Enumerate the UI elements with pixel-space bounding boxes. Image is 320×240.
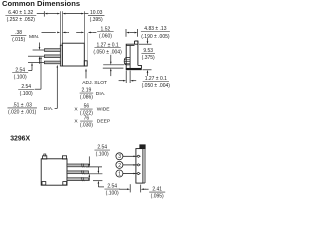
lead 1 (top, right side): [67, 164, 89, 167]
pin 2 lead: [123, 164, 134, 166]
svg-text:(.100): (.100): [106, 191, 119, 197]
svg-text:(.252 ± .052): (.252 ± .052): [7, 17, 36, 23]
svg-text:DEEP: DEEP: [97, 118, 110, 124]
corner lug top-right: [62, 156, 66, 159]
svg-text:(.015): (.015): [12, 37, 25, 43]
corner lug top-left: [43, 156, 47, 159]
svg-text:DIA.: DIA.: [44, 106, 54, 112]
pin 3 circle: [116, 153, 123, 160]
lead 1 (top): [44, 49, 60, 52]
adjustment screw (side): [124, 58, 130, 65]
lead 2 (middle): [44, 55, 60, 58]
lead 2 (middle): [67, 171, 89, 174]
corner lug bottom-right: [63, 182, 67, 185]
svg-text:3: 3: [118, 154, 121, 160]
svg-text:DIA.: DIA.: [96, 91, 106, 97]
svg-text:(.050 ± .004): (.050 ± .004): [142, 83, 171, 89]
adjustment screw end at body lower-right: [84, 61, 87, 66]
trimmer front view (bottom-left): [41, 159, 67, 185]
svg-text:ADJ. SLOT: ADJ. SLOT: [82, 80, 107, 86]
svg-text:(.020 ± .001): (.020 ± .001): [8, 110, 37, 116]
svg-text:(.095): (.095): [151, 194, 164, 200]
pin 2 circle: [116, 161, 123, 168]
svg-text:(.030): (.030): [80, 123, 93, 129]
svg-text:(.086): (.086): [80, 95, 93, 101]
svg-text:(.060): (.060): [99, 33, 112, 39]
pin 1 circle: [116, 170, 123, 177]
svg-text:WIDE: WIDE: [97, 106, 111, 112]
pin 1 lead: [123, 173, 134, 175]
trimmer body side view (top-left): [62, 43, 84, 66]
lead break marks: [81, 163, 82, 167]
svg-text:(.190 ± .005): (.190 ± .005): [141, 34, 170, 40]
lead 3 (bottom): [44, 61, 60, 64]
svg-text:1: 1: [118, 171, 121, 177]
pin 3 lead: [123, 155, 134, 157]
corner lug bottom-left: [42, 182, 46, 185]
svg-text:(.050 ± .004): (.050 ± .004): [93, 49, 122, 55]
svg-text:(.395): (.395): [90, 17, 103, 23]
lead 3 (bottom): [67, 178, 89, 181]
svg-text:(.375): (.375): [142, 55, 155, 61]
svg-text:(.100): (.100): [20, 91, 33, 97]
svg-text:(.100): (.100): [96, 152, 109, 158]
svg-text:3296X: 3296X: [10, 135, 30, 142]
svg-text:MIN.: MIN.: [29, 34, 39, 40]
screw slot nub: [44, 154, 46, 156]
svg-text:Common Dimensions: Common Dimensions: [2, 0, 80, 8]
trimmer body end view (top-right): [126, 41, 138, 70]
top terminal tab: [140, 145, 145, 149]
lead pitch ext lines: [33, 49, 44, 51]
svg-text:2: 2: [118, 163, 121, 169]
svg-text:(.100): (.100): [14, 74, 27, 80]
trimmer side view (bottom-right): [136, 149, 143, 184]
